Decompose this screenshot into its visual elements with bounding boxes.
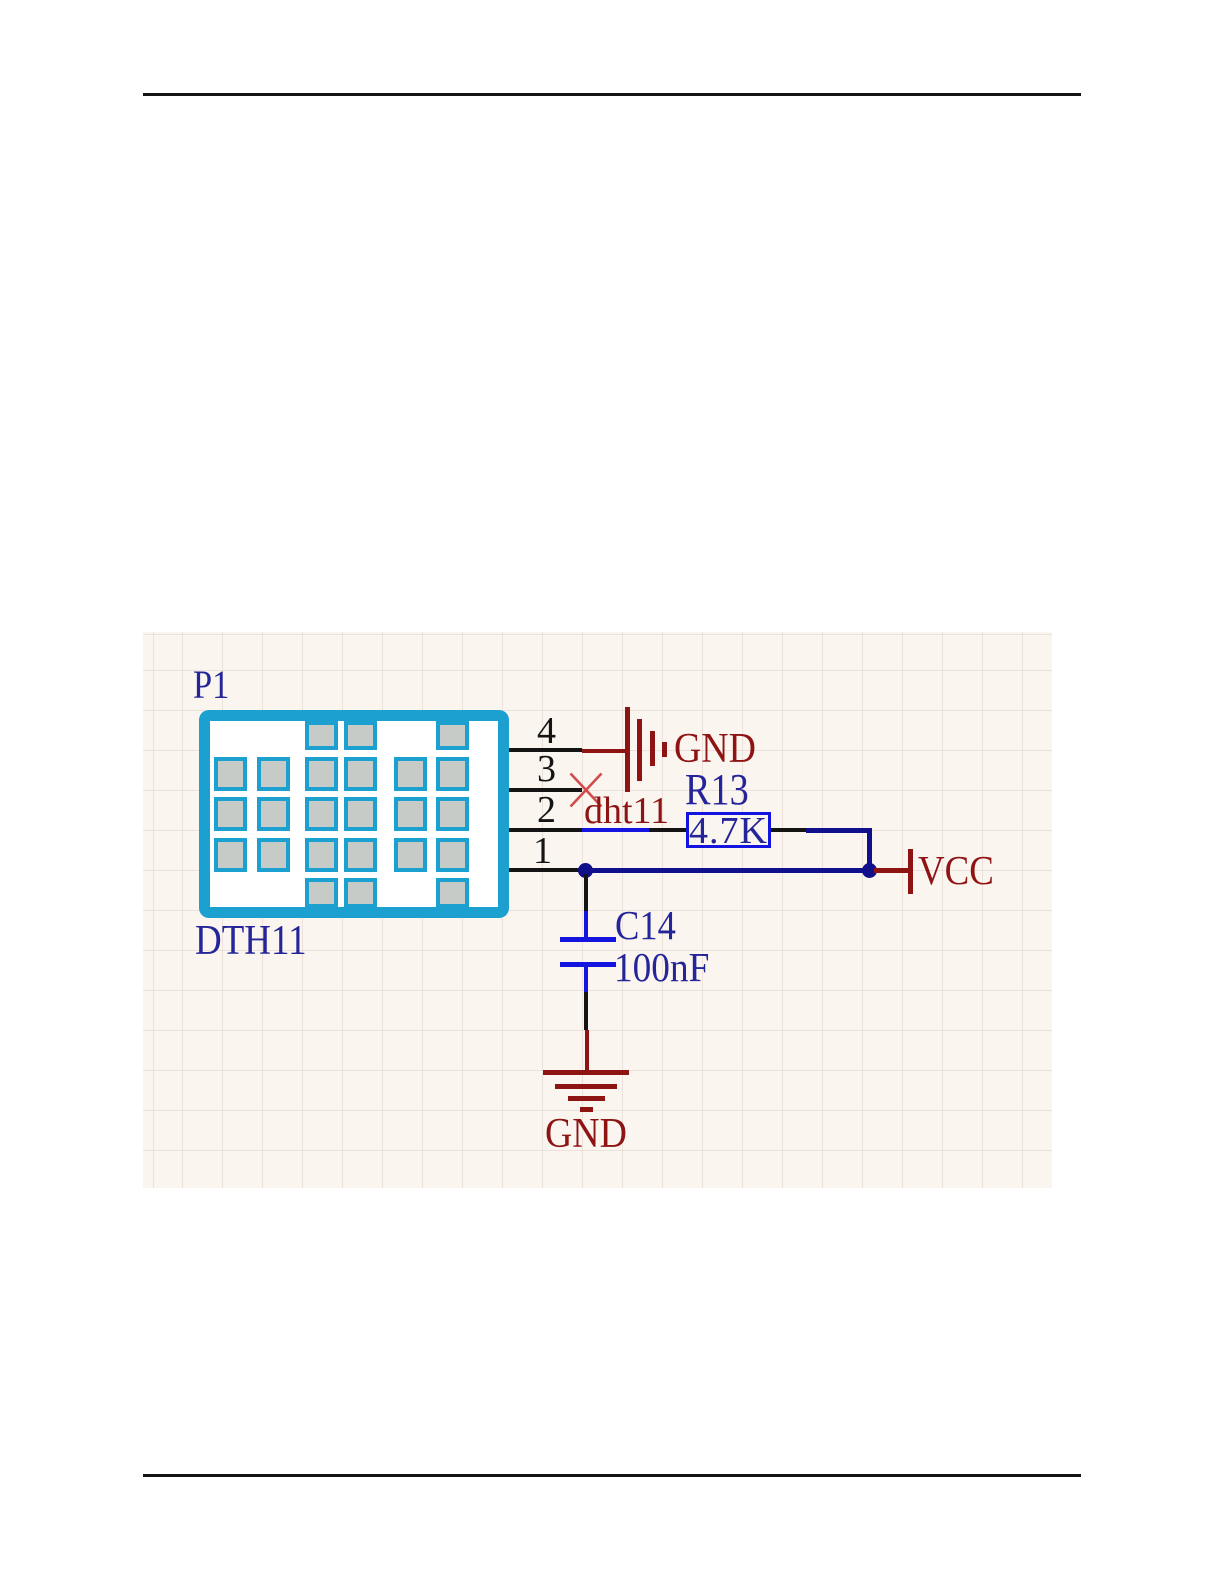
header rule <box>143 93 1081 96</box>
pin 1 <box>509 868 581 872</box>
footer rule <box>143 1474 1081 1477</box>
VCC net name <box>918 850 994 891</box>
VCC bar <box>908 849 913 894</box>
connector pad squares <box>0 0 1224 1</box>
VCC power stub <box>874 868 909 873</box>
resistor R13 body <box>686 812 771 848</box>
pin number 4 <box>537 712 556 750</box>
earth ground bar 2 <box>555 1084 617 1089</box>
ground bar 2 <box>637 719 642 781</box>
pin number 3 <box>537 750 556 788</box>
connector P1 body (DHT11 sensor grid symbol) <box>199 710 509 918</box>
resistor right pin <box>771 828 806 832</box>
schematic panel background with grid <box>143 632 1052 1188</box>
power ground symbol (top, rotated earth) stub <box>582 749 626 753</box>
capacitor C14 top plate <box>560 937 616 942</box>
capacitor C14 top lead <box>584 911 588 938</box>
pin number 2 <box>537 791 556 829</box>
net label dht11 <box>584 792 669 830</box>
resistor R13 designator <box>685 768 749 812</box>
resistor value 4.7K <box>689 812 768 850</box>
capacitor C14 bottom plate <box>560 962 616 967</box>
earth ground symbol (bottom) bar 1 <box>543 1070 629 1075</box>
resistor left pin (black) <box>649 828 686 832</box>
wire resistor to VCC corner <box>806 828 871 833</box>
capacitor C14 bottom lead <box>584 967 588 992</box>
earth ground bar 4 <box>580 1107 593 1112</box>
pin 2 <box>509 828 583 832</box>
no-connect X marker on pin 3 <box>569 772 603 808</box>
junction dot at VCC node <box>862 863 877 878</box>
wire junction down to C14 (black) <box>584 874 588 911</box>
pin number 1 <box>533 832 552 870</box>
capacitor C14 value 100nF <box>614 947 709 988</box>
junction dot at pin1/C14 <box>578 863 593 878</box>
connector part-name label DTH11 <box>195 920 307 962</box>
wire pin1 to VCC node <box>581 868 871 873</box>
pin 3 <box>509 788 582 792</box>
pin 4 <box>509 748 582 752</box>
ground bar 4 <box>662 742 667 757</box>
wire vertical down to VCC node <box>867 828 872 872</box>
GND net name (bottom) <box>545 1113 627 1155</box>
ground bar 3 <box>650 731 655 766</box>
earth ground bar 3 <box>568 1096 605 1101</box>
capacitor C14 designator <box>615 905 676 946</box>
connector P1 designator label <box>193 665 229 705</box>
ground lead (dark red) <box>585 1030 589 1072</box>
wire pin2 to resistor (blue net segment) <box>582 828 649 832</box>
GND net name (top) <box>674 728 756 770</box>
ground bar 1 <box>625 707 630 792</box>
wire C14 to ground (black) <box>584 992 588 1030</box>
